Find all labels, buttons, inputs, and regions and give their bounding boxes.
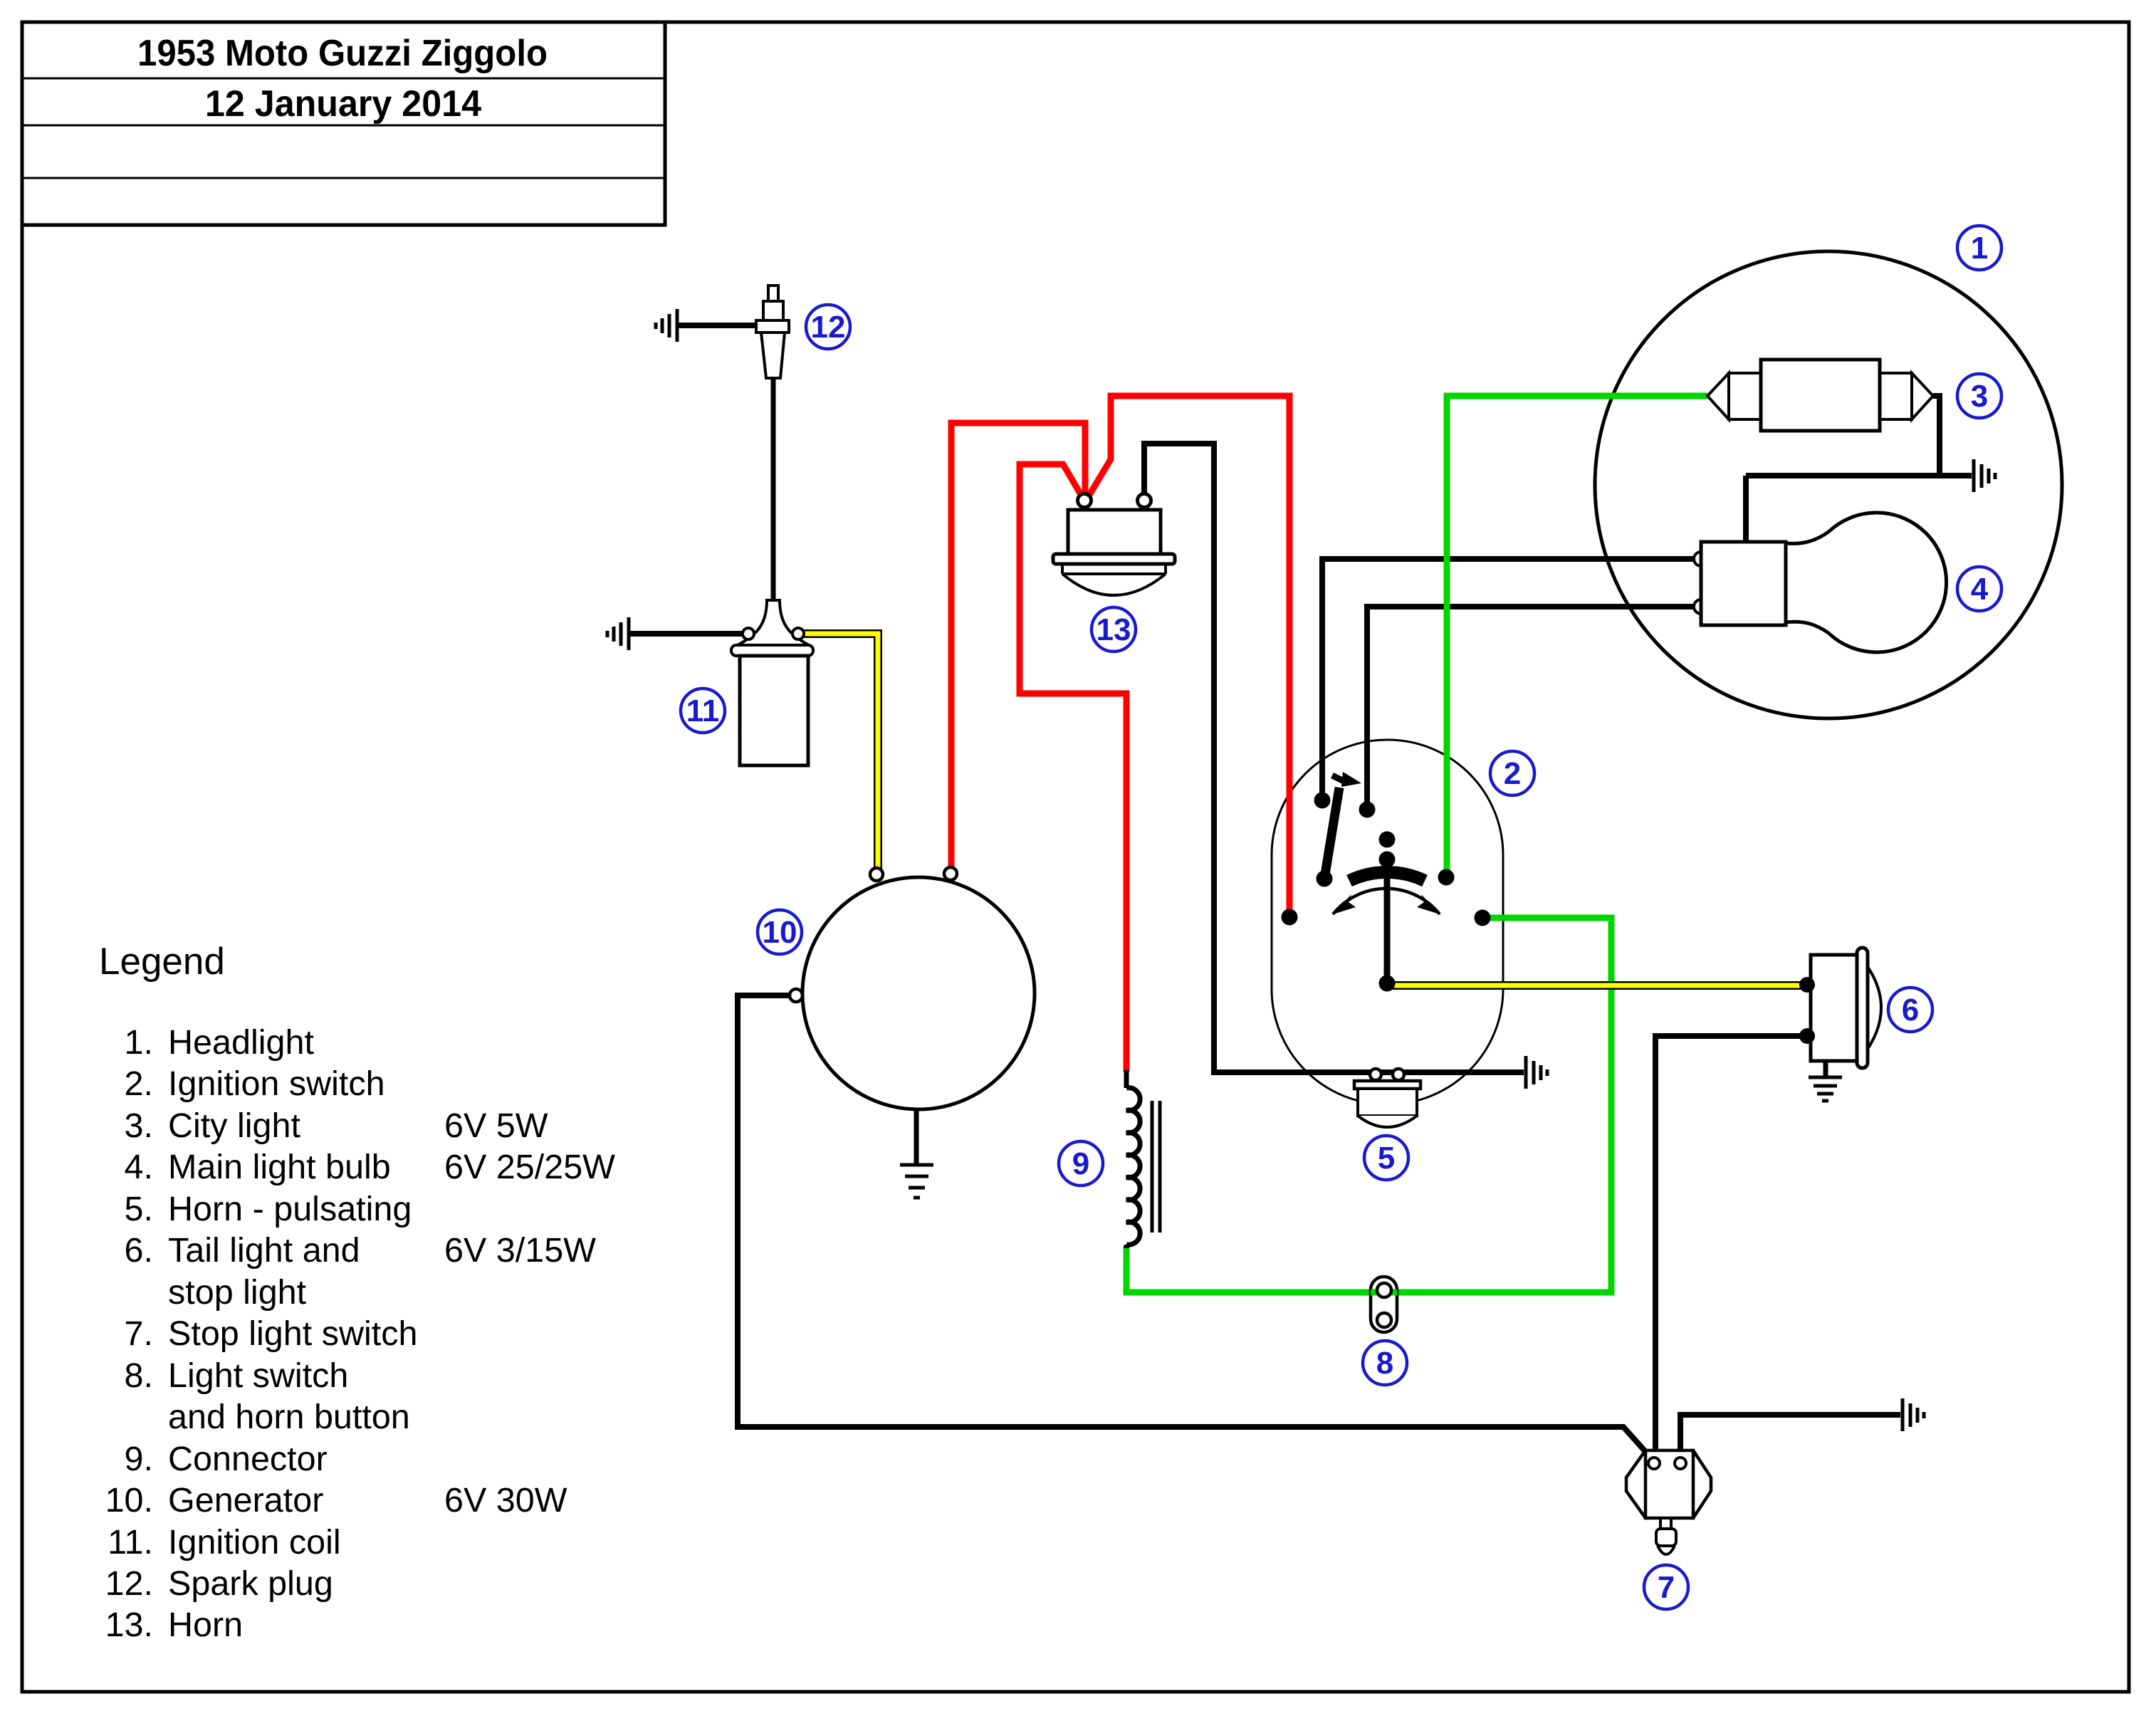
lever xyxy=(1324,788,1339,879)
svg-text:10: 10 xyxy=(763,915,797,950)
svg-text:11.: 11. xyxy=(108,1523,153,1561)
svg-text:stop light: stop light xyxy=(168,1273,307,1312)
circled label 8 xyxy=(1363,1341,1407,1385)
wire black: tail light to stop light switch xyxy=(1655,1036,1807,1463)
svg-text:12.: 12. xyxy=(105,1564,153,1603)
main bulb socket (4) xyxy=(1701,542,1786,625)
circled label 4 xyxy=(1957,567,2001,611)
ground symbol at spark plug xyxy=(656,309,677,342)
svg-text:Legend: Legend xyxy=(99,941,225,983)
svg-text:Horn - pulsating: Horn - pulsating xyxy=(168,1190,412,1228)
light switch and horn button (8) xyxy=(1371,1277,1397,1332)
wire black: tail light ground stem xyxy=(1823,1061,1828,1077)
svg-text:Connector: Connector xyxy=(168,1440,328,1478)
svg-text:Light switch: Light switch xyxy=(168,1356,348,1395)
rotor stem xyxy=(1384,859,1391,983)
ground symbol at ignition coil xyxy=(607,617,629,650)
svg-text:3.: 3. xyxy=(125,1106,153,1145)
circled label 10 xyxy=(758,910,802,954)
wire black: spark plug ground lead xyxy=(678,323,756,328)
svg-text:1953 Moto Guzzi Ziggolo: 1953 Moto Guzzi Ziggolo xyxy=(137,33,548,74)
wire black: coil ground lead xyxy=(629,631,743,637)
svg-text:Ignition coil: Ignition coil xyxy=(168,1523,341,1561)
wire green: ignition switch via light switch 8 to connector 9 xyxy=(1126,918,1611,1292)
svg-text:9.: 9. xyxy=(125,1440,153,1478)
circled label 3 xyxy=(1957,374,2001,418)
ground symbol inside headlight xyxy=(1974,459,1995,492)
wire black: generator to stop light switch xyxy=(738,995,1653,1460)
wire yellow: ignition switch to tail light xyxy=(1388,981,1809,990)
svg-text:6V 30W: 6V 30W xyxy=(444,1481,567,1519)
svg-text:3: 3 xyxy=(1971,379,1988,414)
rotation arc with arrows xyxy=(1333,889,1440,914)
svg-text:4: 4 xyxy=(1971,572,1989,607)
svg-text:9: 9 xyxy=(1072,1146,1089,1181)
svg-text:6: 6 xyxy=(1902,993,1919,1027)
horn (13) xyxy=(1053,494,1175,596)
svg-text:12 January 2014: 12 January 2014 xyxy=(205,83,481,125)
svg-text:4.: 4. xyxy=(125,1148,153,1186)
main light bulb glass (4) xyxy=(1786,513,1947,652)
wire black: stop light switch to ground xyxy=(1680,1415,1900,1463)
circled label 5 xyxy=(1364,1136,1408,1180)
svg-text:8.: 8. xyxy=(125,1356,153,1395)
wire red: horn 13 to connector 9 xyxy=(1020,464,1126,1072)
wire black: headlight internal ground bus xyxy=(1746,473,1972,478)
svg-text:Stop light switch: Stop light switch xyxy=(168,1314,417,1353)
svg-text:5: 5 xyxy=(1378,1141,1395,1176)
svg-text:6V 25/25W: 6V 25/25W xyxy=(444,1148,615,1186)
legend items xyxy=(105,1023,616,1644)
svg-text:5.: 5. xyxy=(125,1190,153,1228)
ignition switch body outline (2) xyxy=(1272,740,1503,1104)
tail light and stop light (6) xyxy=(1799,948,1881,1068)
circled label 13 xyxy=(1092,607,1136,652)
lever arrow xyxy=(1332,775,1344,781)
svg-text:and horn button: and horn button xyxy=(168,1398,410,1436)
wire red: generator to horn 13 xyxy=(951,423,1085,874)
svg-text:Spark plug: Spark plug xyxy=(168,1564,333,1603)
svg-text:8: 8 xyxy=(1376,1346,1393,1381)
svg-text:12: 12 xyxy=(811,310,846,345)
wire red: horn 13 to ignition switch xyxy=(1085,396,1289,917)
connector 9 coil xyxy=(1126,1070,1160,1248)
svg-text:10.: 10. xyxy=(105,1481,153,1519)
svg-text:Generator: Generator xyxy=(168,1481,323,1519)
city light festoon bulb (3) xyxy=(1707,360,1933,431)
wire black: city light to ground and bulb common xyxy=(1933,396,1940,476)
ignition coil (11) xyxy=(731,600,813,765)
circled label 2 xyxy=(1490,751,1534,795)
svg-text:2: 2 xyxy=(1504,756,1521,791)
wire black: horn 13 to ground near horn 5 xyxy=(1144,444,1524,1072)
svg-text:Main light bulb: Main light bulb xyxy=(168,1148,391,1186)
ground symbol at stop light switch xyxy=(1903,1398,1924,1431)
svg-text:7.: 7. xyxy=(125,1314,153,1353)
main bulb socket contacts xyxy=(1694,552,1708,566)
stop light switch (7) xyxy=(1626,1450,1711,1554)
wire black: spark plug to ignition coil xyxy=(771,378,776,600)
svg-text:2.: 2. xyxy=(125,1064,153,1103)
headlight shell circle (1) xyxy=(1595,251,2062,718)
svg-text:6V 3/15W: 6V 3/15W xyxy=(444,1231,596,1270)
svg-text:Headlight: Headlight xyxy=(168,1023,314,1062)
title block xyxy=(22,22,665,225)
circled label 9 xyxy=(1059,1141,1103,1186)
svg-text:13: 13 xyxy=(1097,612,1131,647)
svg-text:11: 11 xyxy=(686,694,720,728)
wire black: ign switch to main bulb low-beam xyxy=(1367,607,1694,810)
svg-text:6.: 6. xyxy=(125,1231,153,1270)
circled label 6 xyxy=(1888,988,1932,1032)
svg-text:7: 7 xyxy=(1658,1570,1675,1605)
svg-text:Horn: Horn xyxy=(168,1606,243,1644)
circled label 7 xyxy=(1644,1565,1688,1609)
svg-text:City light: City light xyxy=(168,1106,300,1145)
svg-text:Tail light and: Tail light and xyxy=(168,1231,360,1270)
ignition switch internals (2) xyxy=(1282,772,1491,992)
terminal dots xyxy=(1314,792,1331,809)
circled label 12 xyxy=(806,305,850,349)
svg-text:Ignition switch: Ignition switch xyxy=(168,1064,385,1103)
generator (10) xyxy=(790,867,1035,1109)
wire black: ign switch to main bulb high-beam xyxy=(1322,559,1694,800)
spark plug (12) xyxy=(756,286,789,378)
svg-text:1.: 1. xyxy=(125,1023,153,1062)
ground symbol at ignition switch bottom wire xyxy=(1526,1056,1547,1089)
wire black: bulb socket to ground bus xyxy=(1743,476,1749,542)
wire green: city light to ignition switch xyxy=(1447,396,1707,877)
svg-text:13.: 13. xyxy=(105,1606,153,1644)
horn pulsating (5) xyxy=(1354,1069,1420,1127)
ground symbol below tail light xyxy=(1809,1077,1842,1101)
circled label 11 xyxy=(681,689,725,733)
svg-text:6V 5W: 6V 5W xyxy=(444,1106,548,1145)
wire yellow: ignition coil to generator xyxy=(798,634,878,873)
svg-text:1: 1 xyxy=(1971,231,1988,266)
circled label 1 xyxy=(1957,226,2001,270)
thick contact arc xyxy=(1349,872,1425,881)
wire black: generator ground stem xyxy=(914,1108,919,1165)
ground symbol below generator xyxy=(900,1165,933,1198)
